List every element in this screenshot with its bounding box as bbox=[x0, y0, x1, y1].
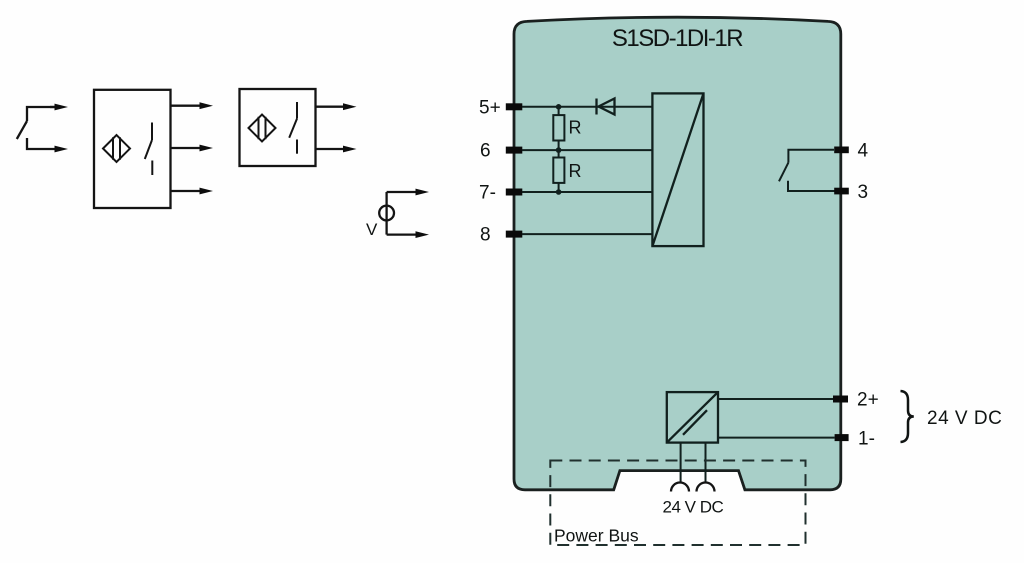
svg-text:S1SD-1DI-1R: S1SD-1DI-1R bbox=[612, 25, 743, 52]
brace for 24 V DC supply bbox=[901, 391, 914, 442]
isolation amplifier U1 bbox=[652, 93, 703, 246]
diode D1 on 5+ line bbox=[597, 99, 615, 115]
power bus connector arc left bbox=[671, 483, 689, 492]
svg-text:24 V DC: 24 V DC bbox=[663, 498, 724, 517]
wire terminal 6 to amplifier bbox=[522, 149, 652, 151]
power bus wire right bbox=[705, 443, 707, 482]
terminal 2+ block bbox=[833, 396, 848, 403]
svg-text:1-: 1- bbox=[858, 428, 875, 449]
sensor symbol (diamond) in box 1 bbox=[103, 135, 130, 162]
switch contact in box 2 bbox=[289, 102, 297, 154]
svg-text:R: R bbox=[569, 118, 582, 138]
sensor symbol (diamond) in box 2 bbox=[249, 115, 276, 142]
svg-text:V: V bbox=[366, 220, 378, 239]
terminal 5+ block bbox=[506, 103, 523, 110]
arrow from switch top bbox=[50, 104, 68, 111]
module body S1SD-1DI-1R bbox=[514, 17, 841, 490]
svg-text:R: R bbox=[569, 161, 582, 181]
power bus wire left bbox=[680, 443, 682, 482]
svg-text:8: 8 bbox=[480, 225, 491, 246]
terminal 7- block bbox=[506, 189, 523, 196]
svg-text:2+: 2+ bbox=[857, 390, 879, 411]
svg-text:6: 6 bbox=[480, 141, 491, 162]
junction node on 6 bbox=[556, 147, 562, 153]
output wires/arrows of box 2 bbox=[316, 107, 345, 149]
output wires/arrows of box 1 bbox=[171, 106, 201, 191]
terminal 1- block bbox=[835, 434, 849, 441]
mechanical switch contact (far left input) bbox=[17, 107, 56, 149]
wire terminal 8 to amplifier bbox=[522, 233, 652, 235]
svg-text:24 V DC: 24 V DC bbox=[927, 408, 1002, 429]
relay output contact bbox=[779, 150, 835, 191]
voltage source V bbox=[379, 192, 416, 235]
svg-text:Power Bus: Power Bus bbox=[554, 526, 639, 546]
wire terminal 7- to amplifier bbox=[522, 191, 652, 193]
terminal 6 block bbox=[506, 147, 523, 154]
wire converter to terminal 1- bbox=[718, 437, 835, 439]
svg-text:4: 4 bbox=[858, 141, 869, 162]
terminal 4 block bbox=[834, 147, 849, 154]
resistor R1 bbox=[553, 107, 564, 150]
arrows of voltage source bbox=[416, 189, 430, 238]
svg-text:5+: 5+ bbox=[479, 97, 501, 118]
junction node on 7- bbox=[556, 189, 562, 195]
sensor box 1 (3-wire proximity sensor) bbox=[94, 90, 171, 208]
svg-text:7-: 7- bbox=[479, 183, 496, 204]
svg-text:3: 3 bbox=[858, 182, 869, 203]
resistor R2 bbox=[553, 150, 564, 192]
power bus dashed box bbox=[550, 461, 805, 546]
wire terminal 5+ to amplifier bbox=[522, 106, 652, 108]
arrow from switch bottom bbox=[55, 146, 69, 153]
power bus connector arc right bbox=[697, 483, 715, 492]
sensor box 2 (2-wire proximity sensor) bbox=[240, 89, 316, 166]
switch contact in box 1 bbox=[145, 123, 153, 176]
terminal 8 block bbox=[506, 231, 523, 238]
terminal 3 block bbox=[834, 188, 849, 195]
junction node on 5+ bbox=[556, 104, 562, 110]
power supply converter U2 bbox=[667, 392, 718, 443]
wire converter to terminal 2+ bbox=[718, 398, 833, 400]
